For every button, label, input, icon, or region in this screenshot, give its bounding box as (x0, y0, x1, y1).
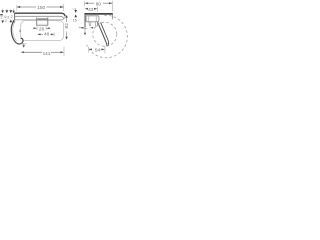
side bar thickness dim: stem (75, 8, 77, 10)
dim 141: line right (51, 51, 63, 53)
svg-text:2: 2 (11, 15, 13, 19)
dim 80: ext left (84, 1, 86, 6)
left mini-dim up arrow b (12, 20, 14, 23)
left mini-dim hairline 4 (13, 9, 15, 11)
plate right edge (47, 17, 49, 25)
dim 80: line right (103, 2, 112, 4)
side bar thickness dim: up arrow (74, 14, 77, 17)
dim 141: ext right (63, 47, 65, 56)
svg-text:2: 2 (7, 16, 9, 20)
side bar thickness dim: tick (72, 8, 76, 10)
side wall line (84, 14, 86, 28)
dim 43: ext right (96, 6, 98, 12)
dim 48: line left (40, 33, 43, 35)
side height dim: line upper (66, 18, 68, 23)
dim 26: right arrow (46, 27, 49, 29)
side plate inner line right (95, 16, 97, 22)
plate left edge (36, 17, 38, 25)
plate thickness stub left (79, 27, 82, 29)
bar bottom line (15, 18, 65, 20)
dim 80: right arrow (109, 2, 112, 4)
hook bottom marker line (23, 44, 25, 46)
dim 150: left arrow (17, 6, 21, 8)
dim 54: line right (101, 48, 103, 50)
left mini-dim hairline 1 (2, 9, 4, 11)
dim 150: line left segment (17, 6, 36, 8)
dim 26: left stub (33, 27, 34, 29)
left mini-dim up arrow a (10, 20, 13, 23)
side plate inner line left (88, 16, 90, 22)
core dashed circle (small) (93, 22, 117, 46)
dim 141: right arrow (60, 51, 63, 53)
dim 26: right stub (49, 27, 50, 29)
left mini-dim hairline 2 (6, 9, 8, 11)
side height dim: up arrow (65, 15, 67, 18)
dim 48: line right (51, 33, 54, 35)
dim 48: right arrow (51, 33, 54, 35)
left mini-dim down arrow 2 (6, 10, 9, 13)
bar left cap (14, 13, 16, 20)
side arm outer line (98, 22, 107, 45)
plate thickness arrow right-pointing (81, 27, 84, 29)
roll dashed circle (big, left side omitted) (87, 15, 128, 57)
svg-text:82: 82 (64, 23, 70, 29)
wall bottom marker arrow (84, 33, 86, 36)
left mini-dim down arrow 4 (12, 11, 14, 14)
dim 26: extension left (36, 26, 38, 30)
side plate profile (86, 16, 99, 22)
dim 54: left arrow (89, 48, 92, 50)
dim 43: right arrow (94, 8, 97, 10)
dim 150: extension line right (63, 4, 65, 12)
side plate leg right (95, 22, 97, 26)
dim 80: ext right (111, 1, 113, 12)
dim 43: left arrow (85, 8, 88, 10)
roll outline (front) (21, 21, 64, 41)
left mini-dim dark dash (0, 14, 3, 15)
wall bottom marker line (84, 28, 86, 33)
dim 80: left arrow (85, 2, 88, 4)
hook arm (front J-curve) (11, 20, 23, 44)
svg-text:54: 54 (95, 47, 101, 53)
hook bottom marker tick (21, 43, 26, 45)
dim 150: extension line left (16, 5, 18, 11)
left mini-dim hairline 3 (10, 9, 12, 11)
dim 48: ext right (53, 32, 55, 36)
left mini-dim down arrow 1 (1, 10, 4, 13)
dim 150: line right segment (47, 6, 64, 8)
svg-text:150: 150 (37, 5, 45, 11)
dim 48: left arrow (37, 33, 40, 35)
dim 54: right arrow (102, 48, 105, 50)
svg-text:8: 8 (19, 29, 21, 33)
dim 26: left arrow (34, 27, 37, 29)
svg-text:48: 48 (44, 32, 50, 37)
plate thickness arrow left-pointing (90, 27, 93, 29)
left mini-dim down arrow 3 (9, 10, 12, 13)
hook inner line (13, 21, 17, 41)
side height dim: down arrow (65, 37, 67, 40)
bar middle line (15, 16, 64, 19)
dim 26: extension right (45, 26, 47, 30)
left mini-dim down arrow low (1, 21, 4, 24)
side arm inner line (101, 22, 109, 43)
dim 141: line left (23, 51, 42, 53)
wall bottom marker tick (83, 27, 87, 29)
dim 54: ext right (104, 46, 106, 54)
svg-text:2: 2 (5, 19, 7, 23)
bar top edge (14, 13, 65, 16)
dim 150: right arrow (60, 6, 64, 8)
hook bottom marker arrow (23, 45, 25, 48)
side height dim: line lower (66, 32, 68, 38)
svg-text:43: 43 (88, 7, 94, 13)
side bar right cap (112, 15, 114, 20)
dim 54: ext left (88, 47, 90, 53)
plate inner bottom line (37, 23, 47, 25)
side top bar (84, 13, 112, 15)
svg-text:141: 141 (43, 51, 51, 56)
side arm hook tip (107, 43, 109, 45)
side plate leg left (89, 22, 91, 26)
svg-text:15: 15 (73, 19, 77, 23)
side bar thickness dim: down arrow (74, 10, 77, 13)
plate inner band (37, 18, 47, 20)
plate bottom edge (37, 25, 48, 27)
dim 141: left arrow (21, 51, 24, 53)
svg-text:80: 80 (96, 1, 102, 7)
dim 80: line left (87, 2, 94, 4)
